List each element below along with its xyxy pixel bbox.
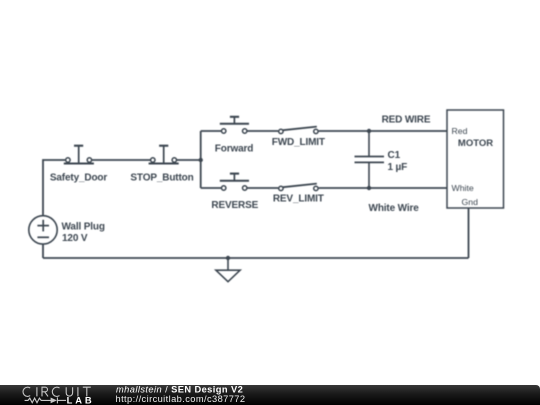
pushbutton NC Safety_Door: [64, 146, 94, 164]
svg-text:LAB: LAB: [67, 394, 95, 405]
motor M1 box: [447, 110, 504, 208]
wire: FWD_LIMIT to MOTOR Red pin: [319, 130, 447, 132]
voltage source V1 Wall Plug: [29, 216, 57, 244]
capacitor C1: [355, 131, 385, 188]
ground symbol: [216, 258, 240, 282]
label C1 value: [388, 150, 408, 173]
pushbutton NO REVERSE: [220, 174, 249, 191]
pushbutton NO Forward: [220, 117, 249, 133]
label V1 value: Wall Plug 120 V: [62, 221, 105, 244]
pushbutton NC STOP_Button: [149, 146, 179, 164]
wire: branch vertical between Forward and REVERSE rows: [200, 131, 202, 188]
wire: branch node to Forward: [201, 130, 221, 132]
junction node at branch split: [199, 158, 203, 162]
logo schematic squiggle resistor and diode: [25, 397, 66, 403]
switch SPST FWD_LIMIT: [279, 127, 318, 134]
wire: REVERSE to REV_LIMIT: [247, 187, 278, 189]
wire: MOTOR Gnd pin down to bottom rail: [468, 208, 470, 258]
wire: left vertical from Safety_Door corner down to V1 top: [43, 160, 65, 216]
footer CircuitLab bar: [0, 385, 540, 405]
junction node capacitor bottom: [367, 186, 371, 190]
wire: bottom horizontal rail: [43, 257, 469, 259]
switch SPST REV_LIMIT: [279, 184, 318, 191]
wire: Safety_Door to STOP_Button: [92, 159, 150, 161]
logo CircuitLab wordmark CIRCUIT: [23, 387, 91, 396]
wire: REV_LIMIT to MOTOR White pin: [319, 187, 447, 189]
wire: V1 bottom to lower-left corner: [42, 244, 44, 258]
junction node capacitor top: [367, 129, 371, 133]
wire: branch node to REVERSE: [201, 187, 221, 189]
wire: STOP_Button to branch node: [177, 159, 201, 161]
junction node at ground tap: [226, 256, 230, 260]
wire: Forward to FWD_LIMIT: [247, 130, 278, 132]
svg-text:http://circuitlab.com/c387772: http://circuitlab.com/c387772: [116, 394, 246, 404]
